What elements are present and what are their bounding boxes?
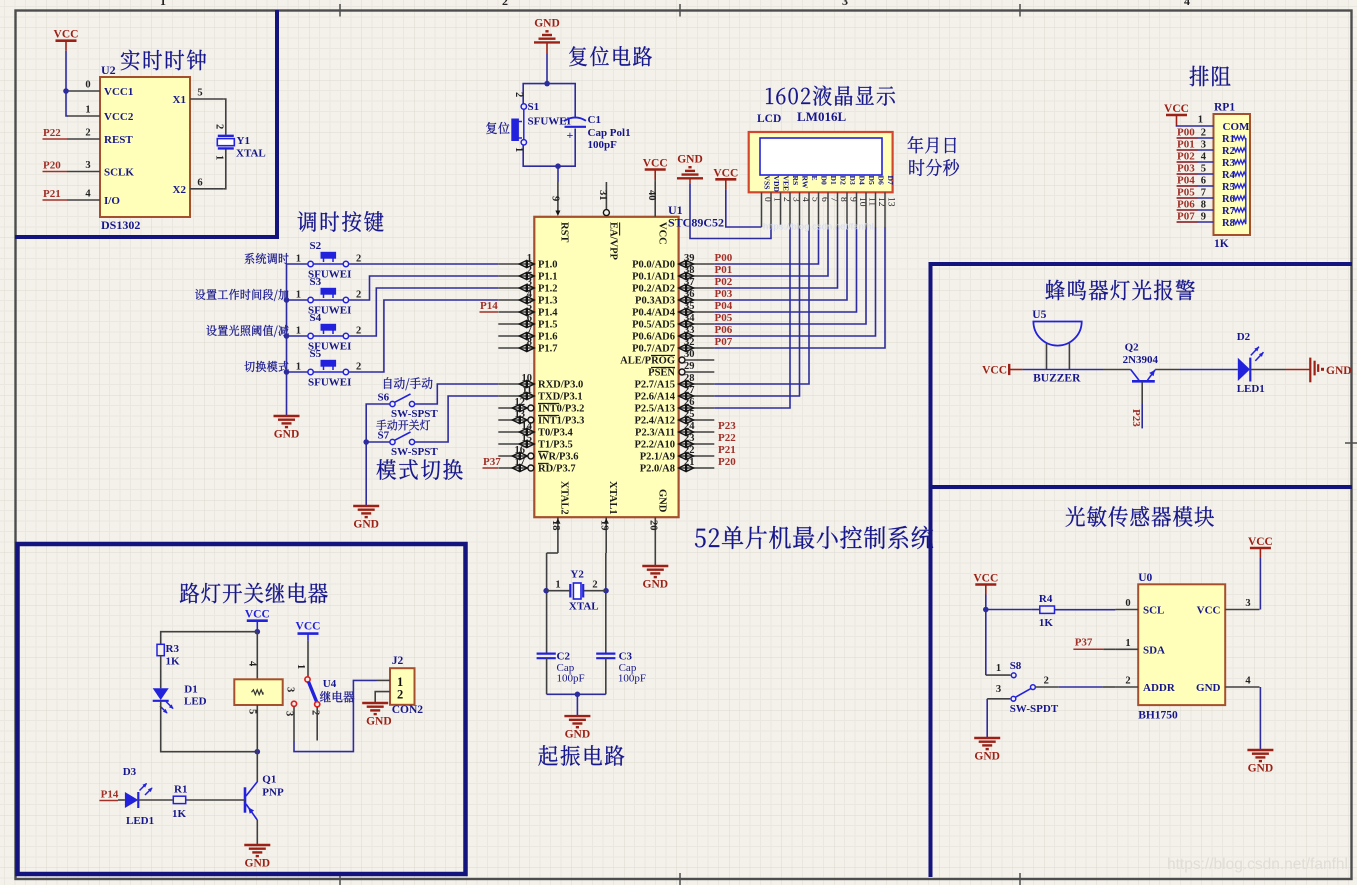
svg-text:P2.3/A11: P2.3/A11: [635, 428, 675, 439]
section box: buzzer / light sensor regions: [931, 264, 1353, 877]
wire loop to RST pin: [557, 166, 559, 182]
svg-text:GND: GND: [1248, 763, 1274, 775]
title oscillator circuit: [538, 745, 624, 766]
svg-text:GND: GND: [677, 153, 703, 165]
svg-text:1: 1: [85, 105, 90, 116]
svg-text:E: E: [810, 176, 819, 181]
svg-text:P2.2/A10: P2.2/A10: [634, 440, 675, 451]
svg-text:P2.5/A13: P2.5/A13: [634, 404, 675, 415]
svg-text:BUZZER: BUZZER: [1033, 373, 1081, 385]
U0 pins: [1115, 598, 1259, 694]
svg-text:GND: GND: [657, 489, 668, 513]
svg-text:P20: P20: [43, 160, 61, 172]
svg-text:R4: R4: [1222, 170, 1236, 181]
U1 bottom pins XTAL2 XTAL1 GND: [550, 481, 668, 553]
svg-text:7: 7: [527, 325, 532, 336]
svg-text:R7: R7: [1222, 206, 1235, 217]
svg-text:10: 10: [522, 373, 533, 384]
svg-text:GND: GND: [565, 729, 591, 741]
LCD LM016L: [749, 109, 893, 192]
svg-text:T1/P3.5: T1/P3.5: [538, 440, 573, 451]
svg-text:34: 34: [684, 313, 695, 324]
svg-text:P1.6: P1.6: [538, 332, 558, 343]
wire Q1 emitter to GND: [256, 820, 258, 845]
svg-text:D3: D3: [848, 176, 857, 185]
svg-text:P0.7/AD7: P0.7/AD7: [632, 344, 675, 355]
svg-text:P0.0/AD0: P0.0/AD0: [632, 260, 675, 271]
ground symbol (reset): [534, 17, 560, 53]
svg-text:P14: P14: [480, 300, 498, 312]
svg-text:P06: P06: [715, 324, 733, 336]
svg-text:VCC2: VCC2: [104, 111, 134, 123]
svg-text:1: 1: [296, 326, 301, 337]
net label P37: [483, 456, 502, 468]
wire U4 pin3 to J2 pin1: [293, 707, 295, 742]
svg-text:X1: X1: [173, 94, 186, 106]
svg-text:1K: 1K: [1214, 238, 1229, 250]
svg-text:S8: S8: [1010, 660, 1022, 672]
svg-text:P0.1/AD1: P0.1/AD1: [632, 272, 675, 283]
svg-text:P07: P07: [715, 336, 733, 348]
svg-text:19: 19: [598, 520, 609, 531]
svg-text:ADDR: ADDR: [1143, 682, 1176, 694]
svg-text:D1: D1: [184, 684, 197, 696]
title buzzer light alarm: [1045, 280, 1194, 301]
svg-text:REST: REST: [104, 134, 133, 146]
svg-text:P0.2/AD2: P0.2/AD2: [632, 284, 675, 295]
net label P37 (BH1750): [1073, 636, 1115, 649]
svg-text:U2: U2: [101, 63, 116, 77]
svg-text:PNP: PNP: [262, 787, 284, 799]
svg-text:14: 14: [522, 421, 533, 432]
VCC power symbol (LCD): [713, 167, 738, 189]
svg-text:4: 4: [85, 189, 91, 200]
svg-text:GND: GND: [643, 579, 669, 591]
svg-text:D0: D0: [820, 176, 829, 185]
svg-text:SFUWEI: SFUWEI: [528, 116, 571, 128]
svg-text:C2: C2: [557, 651, 571, 663]
transistor Q1 PNP: [245, 774, 284, 821]
relay coil: [234, 661, 282, 714]
label year month day: [908, 136, 956, 153]
svg-text:DS1302: DS1302: [101, 218, 140, 232]
svg-text:X2: X2: [173, 184, 187, 196]
label for S5 (chinese): [244, 361, 288, 372]
svg-text:3: 3: [842, 0, 848, 8]
svg-text:U5: U5: [1032, 309, 1046, 321]
svg-text:0: 0: [1125, 598, 1130, 609]
svg-text:5: 5: [1201, 164, 1206, 175]
svg-text:1: 1: [513, 147, 524, 152]
svg-text:4: 4: [1201, 152, 1207, 163]
svg-text:1: 1: [296, 290, 301, 301]
svg-text:6: 6: [1201, 176, 1206, 187]
crystal Y2: [547, 569, 606, 613]
svg-text:P1.4: P1.4: [538, 308, 558, 319]
svg-text:GND: GND: [534, 17, 560, 29]
svg-text:3: 3: [527, 277, 532, 288]
svg-text:P2.7/A15: P2.7/A15: [634, 380, 675, 391]
section box: relay region: [18, 544, 466, 874]
wire D1 down and to coil bottom junction: [161, 701, 258, 752]
svg-text:D6: D6: [877, 176, 886, 185]
wire VCC to R4 and S8: [986, 595, 1032, 610]
buzzer U5: [1032, 309, 1081, 385]
svg-text:P03: P03: [1177, 163, 1195, 175]
svg-text:P1.1: P1.1: [538, 272, 558, 283]
switch S6 SW-SPST: [378, 392, 439, 421]
svg-text:J2: J2: [392, 655, 404, 667]
svg-text:2: 2: [397, 688, 403, 702]
svg-text:D5: D5: [867, 176, 876, 185]
ground symbol (buttons): [274, 416, 300, 441]
wire VCC to VCC1/VCC2: [66, 51, 68, 116]
svg-text:P01: P01: [1177, 139, 1195, 151]
svg-text:CON2: CON2: [392, 704, 424, 716]
wire VCC to VSS: [726, 189, 762, 227]
svg-text:VCC: VCC: [643, 158, 668, 170]
svg-text:https://blog.csdn.net/fanfhl: https://blog.csdn.net/fanfhl: [763, 222, 874, 233]
svg-text:LED: LED: [184, 696, 207, 708]
svg-text:P2.6/A14: P2.6/A14: [634, 392, 675, 403]
svg-text:P14: P14: [101, 789, 119, 801]
net label P14 (relay): [99, 789, 125, 801]
wires LCD D0-D7 to P0.0-P0.7: [714, 227, 818, 264]
svg-text:R6: R6: [1222, 194, 1235, 205]
VCC bar symbol (buzzer): [982, 364, 1022, 376]
svg-text:RW: RW: [801, 176, 810, 189]
svg-text:VCC: VCC: [245, 609, 270, 621]
svg-text:C1: C1: [588, 114, 601, 126]
svg-text:4: 4: [247, 661, 258, 667]
title timing buttons: [298, 211, 384, 232]
title mode switch: [377, 459, 463, 480]
svg-text:R5: R5: [1222, 182, 1235, 193]
reset loop wires: [523, 84, 575, 119]
LED D2: [1237, 331, 1265, 395]
wire Q2 to D2: [1155, 369, 1180, 371]
svg-text:40: 40: [646, 190, 657, 201]
svg-text:VCC: VCC: [982, 364, 1007, 376]
ground symbol (oscillator): [564, 716, 590, 741]
svg-text:P02: P02: [715, 276, 733, 288]
wire U0 pin4 to GND: [1259, 687, 1261, 750]
svg-text:1: 1: [555, 579, 560, 590]
svg-text:D4: D4: [858, 176, 867, 185]
svg-text:38: 38: [684, 265, 695, 276]
wire S3 to P1.1: [349, 276, 499, 300]
label manual switch light: [376, 420, 430, 431]
svg-text:SCL: SCL: [1143, 605, 1164, 617]
LCD pin labels and numbers: [762, 176, 896, 207]
resistor pack RP1: [1214, 102, 1251, 251]
label for S2 (chinese): [245, 253, 289, 264]
svg-text:1: 1: [296, 362, 301, 373]
svg-text:4: 4: [1245, 676, 1251, 687]
ground symbol (Q1): [244, 845, 270, 870]
label 52 MCU minimal control system: [695, 526, 933, 549]
svg-text:INT0/P3.2: INT0/P3.2: [538, 404, 584, 415]
svg-text:S7: S7: [378, 430, 390, 442]
svg-text:Q2: Q2: [1125, 342, 1140, 354]
svg-text:T0/P3.4: T0/P3.4: [538, 428, 573, 439]
svg-text:P1.5: P1.5: [538, 320, 558, 331]
svg-text:COM: COM: [1223, 121, 1251, 133]
svg-text:5: 5: [247, 709, 258, 714]
svg-text:17: 17: [515, 457, 526, 468]
svg-text:P06: P06: [1177, 199, 1195, 211]
wire S2 to P1.0: [349, 263, 499, 265]
VCC power symbol (U4, blue): [296, 621, 321, 641]
title resistor pack: [1190, 66, 1231, 86]
svg-text:Cap Pol1: Cap Pol1: [588, 127, 631, 139]
svg-text:33: 33: [684, 325, 695, 336]
title real-time clock: [121, 50, 206, 71]
RP1 pins 2-9 wires and net labels P00-P07: [1177, 127, 1214, 223]
svg-text:27: 27: [684, 385, 695, 396]
IC U1 STC89C52: [534, 217, 678, 517]
section box: real-time clock region: [15, 10, 277, 237]
svg-text:P1.2: P1.2: [538, 284, 558, 295]
ground symbol (U0 right): [1247, 750, 1273, 775]
net labels P00-P07: [715, 252, 733, 348]
svg-text:XTAL: XTAL: [236, 148, 266, 160]
net label P21: [43, 188, 68, 200]
svg-text:18: 18: [550, 520, 561, 531]
svg-text:2: 2: [1044, 676, 1049, 687]
title light sensor module: [1066, 506, 1214, 527]
svg-text:P0.5/AD5: P0.5/AD5: [632, 320, 675, 331]
wire VCC to U0 pin3: [1259, 558, 1261, 610]
svg-text:2: 2: [356, 254, 361, 265]
svg-text:2: 2: [1125, 676, 1130, 687]
label auto/manual: [384, 377, 432, 390]
svg-text:2: 2: [356, 362, 361, 373]
svg-text:P05: P05: [1177, 187, 1195, 199]
svg-text:GND: GND: [353, 519, 379, 531]
svg-text:30: 30: [684, 349, 695, 360]
svg-text:P02: P02: [1177, 151, 1195, 163]
resistor R1: [172, 784, 187, 821]
LED D1: [153, 684, 207, 714]
VCC power symbol (U2): [54, 29, 79, 51]
svg-text:RXD/P3.0: RXD/P3.0: [538, 380, 583, 391]
svg-text:7: 7: [1201, 188, 1206, 199]
svg-text:8: 8: [527, 337, 532, 348]
wire bus left of buttons to GND: [287, 264, 309, 416]
svg-text:100pF: 100pF: [618, 673, 646, 685]
svg-text:U4: U4: [323, 678, 337, 690]
svg-text:P04: P04: [715, 300, 733, 312]
svg-text:VEE: VEE: [782, 176, 791, 192]
pushbutton S1: [512, 92, 571, 152]
ground symbol (J2): [362, 703, 391, 728]
svg-text:3: 3: [996, 684, 1001, 695]
svg-text:P22: P22: [718, 432, 736, 444]
svg-text:R8: R8: [1222, 218, 1235, 229]
svg-text:VSS: VSS: [763, 176, 772, 190]
svg-text:+: +: [567, 128, 574, 142]
svg-text:P2.4/A12: P2.4/A12: [634, 416, 675, 427]
wires C2/C3 to GND: [546, 658, 548, 694]
svg-text:P05: P05: [715, 312, 733, 324]
wire VCC to Q2: [1022, 369, 1103, 371]
svg-text:6: 6: [197, 177, 202, 188]
svg-text:D2: D2: [839, 176, 848, 185]
svg-text:STC89C52: STC89C52: [668, 216, 724, 230]
svg-text:XTAL1: XTAL1: [607, 481, 618, 515]
svg-text:9: 9: [1201, 212, 1206, 223]
wire Q1 base to R1: [186, 799, 245, 801]
sheet zone ticks: [339, 4, 341, 17]
svg-text:3: 3: [1245, 598, 1250, 609]
svg-text:31: 31: [597, 190, 608, 201]
svg-text:SW-SPST: SW-SPST: [391, 408, 438, 420]
svg-text:15: 15: [522, 433, 533, 444]
svg-text:Y2: Y2: [570, 569, 584, 581]
wire gnd to loop: [546, 54, 548, 84]
svg-text:VCC: VCC: [1248, 536, 1273, 548]
svg-text:26: 26: [684, 397, 695, 408]
svg-text:37: 37: [684, 277, 695, 288]
svg-text:11: 11: [522, 385, 532, 396]
VCC power symbol (R4): [973, 573, 998, 595]
svg-text:5: 5: [197, 88, 202, 99]
svg-text:I/O: I/O: [104, 195, 120, 207]
capacitor C2: [537, 651, 585, 685]
resistor R4: [1032, 593, 1116, 629]
wire D2 to GND: [1250, 369, 1285, 371]
wire coil pin5 down: [256, 705, 258, 752]
svg-text:39: 39: [684, 253, 695, 264]
label for S4 (chinese): [206, 325, 288, 337]
svg-text:20: 20: [647, 520, 658, 531]
svg-text:9: 9: [550, 196, 561, 201]
VCC power symbol (relay coil, blue): [245, 609, 270, 627]
capacitor C3: [596, 651, 646, 685]
svg-text:P00: P00: [1177, 127, 1195, 139]
svg-text:28: 28: [684, 373, 695, 384]
svg-text:INT1/P3.3: INT1/P3.3: [538, 416, 584, 427]
svg-text:XTAL: XTAL: [569, 600, 599, 612]
svg-text:2: 2: [356, 326, 361, 337]
svg-text:P0.6/AD6: P0.6/AD6: [632, 332, 675, 343]
svg-text:4: 4: [527, 289, 533, 300]
svg-text:29: 29: [684, 361, 695, 372]
svg-text:S4: S4: [310, 312, 322, 324]
svg-text:GND: GND: [245, 858, 271, 870]
title 1602 LCD: [766, 86, 895, 106]
svg-text:P1.7: P1.7: [538, 344, 558, 355]
pushbutton S5: [296, 348, 362, 389]
transistor Q2 2N3904: [1123, 342, 1159, 382]
svg-text:P0.4/AD4: P0.4/AD4: [632, 308, 676, 319]
svg-text:LED1: LED1: [126, 815, 154, 827]
U1 pins P3.0-P3.7 (10-17): [498, 373, 584, 475]
crystal Y1: [214, 99, 266, 189]
svg-text:P2.1/A9: P2.1/A9: [640, 452, 675, 463]
svg-text:1: 1: [527, 253, 532, 264]
svg-text:R4: R4: [1039, 593, 1053, 605]
wire S6 to P3.0: [415, 384, 499, 404]
svg-text:P23: P23: [1130, 409, 1142, 427]
svg-text:P2.0/A8: P2.0/A8: [640, 464, 675, 475]
svg-text:D1: D1: [829, 176, 838, 185]
svg-text:C3: C3: [619, 651, 633, 663]
wire S5 to P1.3: [349, 300, 499, 372]
svg-text:P1.0: P1.0: [538, 260, 558, 271]
title reset circuit: [569, 46, 652, 66]
svg-text:P0.3AD3: P0.3AD3: [635, 296, 675, 307]
svg-text:5: 5: [527, 301, 532, 312]
svg-text:U0: U0: [1138, 572, 1152, 584]
title street light relay: [180, 583, 328, 604]
svg-text:1: 1: [214, 155, 225, 160]
svg-text:LED1: LED1: [1237, 383, 1265, 395]
svg-text:23: 23: [684, 433, 695, 444]
svg-text:1: 1: [160, 0, 166, 8]
ground symbol (pin20): [642, 566, 668, 591]
svg-text:P07: P07: [1177, 211, 1195, 223]
svg-text:12: 12: [515, 397, 526, 408]
svg-text:RST: RST: [559, 222, 570, 242]
wire R3 to D1: [160, 656, 162, 689]
net label P14: [480, 300, 499, 312]
svg-text:D3: D3: [123, 766, 137, 778]
svg-text:2: 2: [527, 265, 532, 276]
svg-text:1: 1: [996, 663, 1001, 674]
svg-text:35: 35: [684, 301, 695, 312]
svg-text:0: 0: [85, 80, 90, 91]
U1 pins P1.0-P1.7 (1-8): [498, 253, 558, 355]
svg-text:SFUWEI: SFUWEI: [308, 377, 351, 389]
svg-text:P00: P00: [715, 252, 733, 264]
svg-text:2: 2: [513, 92, 524, 97]
svg-text:S3: S3: [310, 276, 322, 288]
svg-text:1K: 1K: [172, 808, 187, 820]
svg-text:2: 2: [1201, 128, 1206, 139]
svg-text:R1: R1: [174, 784, 187, 796]
svg-text:3: 3: [284, 711, 295, 716]
wire S8 pin3 to GND: [986, 699, 988, 738]
wire junction to Q1 collector: [256, 752, 258, 782]
U1 top pins RST EA/VPP VCC: [550, 182, 668, 261]
svg-text:EA/VPP: EA/VPP: [608, 222, 619, 261]
svg-text:25: 25: [684, 409, 695, 420]
pushbutton S2: [296, 240, 362, 281]
net labels P23 P22 P21 P20 (U1 right): [718, 420, 736, 468]
svg-text:VCC1: VCC1: [104, 86, 133, 98]
svg-text:GND: GND: [1326, 365, 1352, 377]
resistor R3: [157, 643, 180, 668]
svg-text:P37: P37: [1075, 636, 1093, 648]
svg-text:BH1750: BH1750: [1138, 710, 1178, 722]
wire S8 common to ADDR: [1035, 686, 1059, 688]
svg-text:S2: S2: [310, 240, 322, 252]
svg-text:ALE/PROG: ALE/PROG: [620, 356, 675, 367]
wire GND to VDD: [690, 184, 771, 239]
svg-text:P04: P04: [1177, 175, 1195, 187]
wire U4 pin2 down (dangling): [316, 707, 318, 741]
relay switch U4: [284, 641, 337, 717]
svg-text:https://blog.csdn.net/fanfhl: https://blog.csdn.net/fanfhl: [1167, 856, 1348, 873]
svg-text:100pF: 100pF: [588, 139, 618, 151]
svg-text:24: 24: [684, 421, 695, 432]
svg-text:3: 3: [1201, 140, 1206, 151]
LCD pin stubs: [762, 192, 886, 227]
switch S7 SW-SPST: [378, 430, 439, 459]
svg-text:D7: D7: [886, 176, 895, 185]
